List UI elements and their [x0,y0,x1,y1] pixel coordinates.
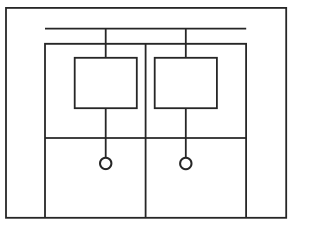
left box [75,58,137,108]
wire bus to right box [185,29,187,58]
right lamp circle [180,158,191,169]
wire right box to right lamp [185,108,187,157]
top bus wire [45,28,246,30]
mid horizontal wire [45,137,246,139]
right box [155,58,217,108]
wire left box to left lamp [105,108,107,157]
wire bus to left box [105,29,107,58]
inner panel [45,44,246,218]
left lamp circle [100,158,111,169]
divider wire [145,44,147,218]
outer enclosure [6,8,286,218]
